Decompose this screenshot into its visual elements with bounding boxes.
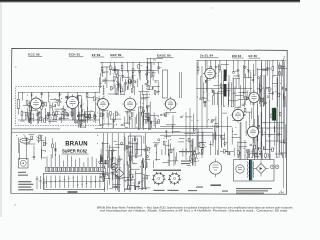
phono jack [19,159,29,169]
fuse F2 [275,165,279,169]
tuner coil L1 [17,100,19,109]
output area wiring [109,151,150,190]
osc coil cluster [79,95,82,128]
volume pot column [53,138,56,158]
tonblende text [179,151,196,152]
EM84 label [211,185,222,186]
output transformer box [128,136,141,156]
tuner input comb [18,92,100,102]
IF transformer outlines [163,70,168,98]
power supply enclosure [234,160,275,182]
tube V6 EABC80 [249,92,259,102]
tube V2 ECH81 [98,99,109,110]
ground bus wire [12,128,60,130]
tube socket diagram S-a [153,173,164,184]
above power box wiring [224,147,287,159]
voltage legend text rows [18,181,31,182]
svg-text:EBF 89: EBF 89 [110,53,121,57]
audio bus wires [160,127,232,136]
tube V1 ECC85 b [67,97,79,109]
tube V5 EL84 [205,68,215,78]
wires from switch to circuit [47,154,100,167]
power box feed wires [240,150,270,160]
tuner mid wiring extra [29,96,100,124]
svg-text:BRAUN: BRAUN [65,140,87,147]
tube V1 ECC85 a [31,98,42,109]
UKW tuner dashed enclosure [16,87,105,126]
IF comb extra [100,65,159,88]
long supply verticals right [186,58,284,188]
antenna symbol [37,135,41,143]
tuner lower component row [25,111,94,123]
HT rail verticals ladder [254,60,285,155]
tube V4 EBF89 [165,99,175,109]
socket caption [154,190,165,191]
jack caption bars [18,172,26,173]
socket labels [153,170,181,171]
long AF verticals [104,133,146,186]
svg-text:ECC 85: ECC 85 [28,53,40,57]
tone control wiring [162,138,204,166]
magic eye tube EM84 [209,162,221,174]
svg-text:A4: A4 [278,190,284,195]
transformer core (teal) [251,160,253,181]
right-bottom section wiring [232,108,287,158]
fuse F1 [270,165,274,169]
power supply notes text [236,188,272,189]
rectifier tube EZ80 [236,165,244,173]
scan edge shading left [0,0,2,217]
IF second rail [112,70,158,81]
speck top area [211,7,212,8]
tube V8 EL84 output lower [247,126,258,137]
tuner lower comb [18,108,100,120]
svg-text:EM 84: EM 84 [232,54,242,58]
svg-text:est reproduction de l'étalon.: est reproduction de l'étalon. Mods. Gamm… [100,209,288,213]
svg-text:ECH 81: ECH 81 [69,53,81,57]
tube V3 EF89 [124,98,136,110]
bridge rectifier [256,164,266,174]
IF can cluster mid [138,94,150,130]
output stage extra wiring [202,65,285,105]
af section wiring [100,168,150,192]
right column cross wires [258,123,284,142]
IF transformer dark cores [224,70,227,82]
output stage top rail [196,60,286,78]
AF dense cluster [99,142,150,190]
tube socket diagram S-b [170,174,180,184]
switch contact cells row [46,167,103,171]
svg-text:EF 89: EF 89 [92,53,101,57]
ratio detector can [147,59,164,86]
bottom strip annotations [112,186,228,192]
detector diode bridge [114,169,124,178]
audio driver wiring [160,112,228,155]
schematic frame border [11,48,287,194]
af preamp wiring [97,135,160,168]
mains transformer TR1 [246,162,249,178]
loudspeaker [111,163,117,169]
output stage wiring top right [197,68,287,107]
tuner section wiring [21,95,102,123]
IF top rail comb [100,62,162,78]
scan edge dark strip top [0,0,300,2]
dial lamp oval [20,138,30,143]
svg-text:2x EL 84: 2x EL 84 [200,54,214,58]
switch bank contacts [45,176,105,189]
anode rail wire [196,88,252,90]
svg-text:SUPER RC62: SUPER RC62 [62,149,88,154]
svg-text:EZ 80: EZ 80 [249,54,258,58]
IF section lower wiring [95,110,160,128]
switch bank label [68,191,78,193]
ferrite antenna wiring [16,134,47,160]
IF amplifier section wiring [100,77,161,95]
switch bank box S1 [44,174,105,190]
mains plug symbols [37,176,44,189]
heater bus wire [12,131,213,133]
AVC bus wire [95,128,213,130]
tube V7 EL84 output [232,109,243,120]
svg-text:EABC 80: EABC 80 [157,53,171,57]
svg-text:T: T [284,56,286,60]
electrolytic capacitor (green) [272,108,276,120]
